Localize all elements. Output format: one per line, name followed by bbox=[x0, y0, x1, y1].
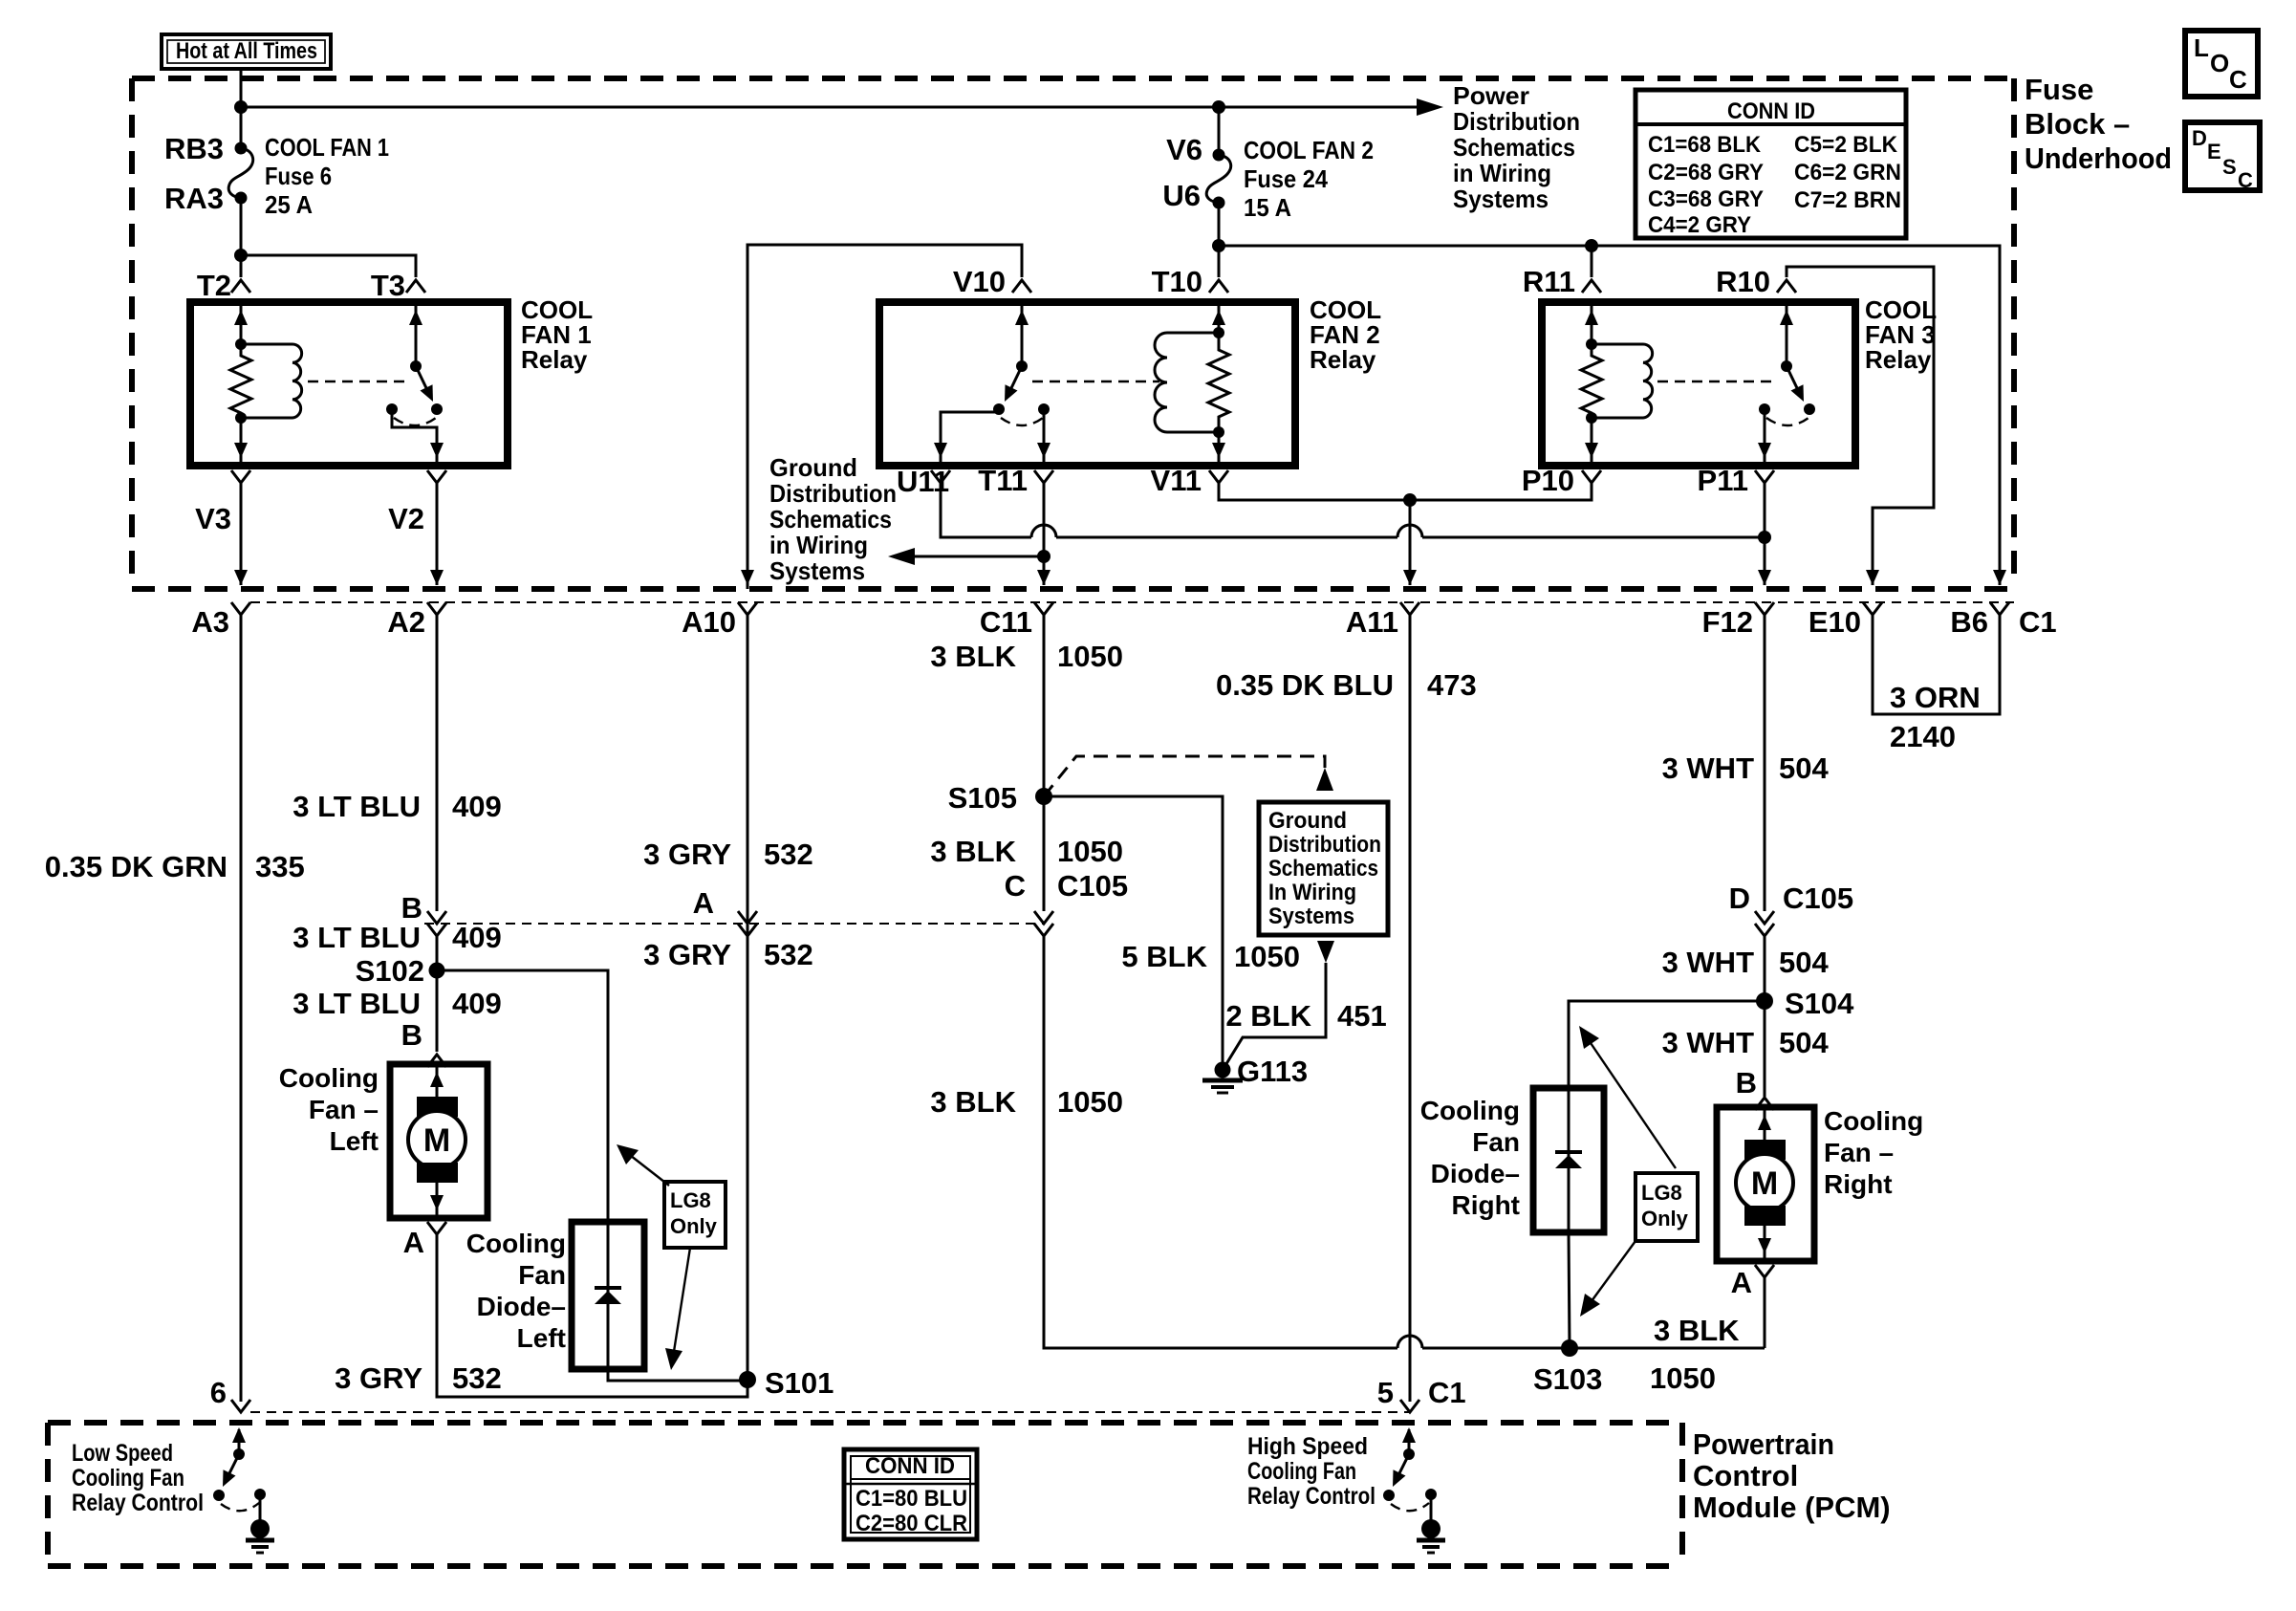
arrow C11 at block edge bbox=[1037, 570, 1051, 585]
svg-text:A: A bbox=[693, 886, 714, 920]
relay K3 COOL FAN 3 Relay box bbox=[1542, 302, 1855, 466]
relay K1 coil entry arrow bbox=[234, 310, 248, 325]
PCM dashed border right bbox=[1679, 1423, 1685, 1566]
relay K2 coil entry arrow bbox=[1212, 310, 1225, 325]
relay K1 switch entry arrow bbox=[409, 310, 422, 325]
motor M1 return wire bbox=[436, 1183, 439, 1218]
node: low speed ground contact bbox=[254, 1489, 266, 1500]
relay K1 switch lever bbox=[416, 366, 427, 390]
relay K2 switch lever bbox=[1010, 366, 1022, 390]
svg-text:V3: V3 bbox=[195, 502, 231, 535]
node: ground distribution tap bbox=[1037, 550, 1051, 563]
motor M2 exit arrow bbox=[1758, 1238, 1771, 1253]
svg-text:5: 5 bbox=[1377, 1376, 1394, 1409]
svg-text:T10: T10 bbox=[1152, 265, 1202, 298]
svg-text:1050: 1050 bbox=[1057, 1085, 1123, 1119]
fuse F24 symbol bbox=[1213, 149, 1225, 162]
svg-text:In Wiring: In Wiring bbox=[1268, 880, 1356, 905]
svg-text:Left: Left bbox=[517, 1323, 566, 1353]
svg-text:Distribution: Distribution bbox=[769, 479, 897, 508]
svg-text:V10: V10 bbox=[953, 265, 1006, 298]
svg-text:Schematics: Schematics bbox=[1268, 856, 1378, 882]
svg-text:A: A bbox=[1731, 1266, 1752, 1299]
wire: bus to B6 drop bbox=[1219, 246, 2000, 585]
svg-text:Low Speed: Low Speed bbox=[72, 1440, 173, 1467]
node: fuse2 top junction bbox=[1212, 100, 1225, 114]
diode CR1 Cooling Fan Diode Left box bbox=[572, 1222, 644, 1369]
wire: stub to R11 bbox=[1591, 246, 1593, 277]
wire 3 LT BLU 409: A2 to C105 B bbox=[436, 615, 439, 911]
node: relay K3 coil top bbox=[1586, 338, 1597, 350]
svg-text:M: M bbox=[1751, 1165, 1778, 1202]
svg-text:D: D bbox=[2192, 126, 2207, 150]
svg-text:532: 532 bbox=[452, 1361, 502, 1395]
wire: stub to T2 bbox=[240, 255, 243, 277]
wire hop over A11 bbox=[1397, 525, 1422, 537]
svg-text:3 LT BLU: 3 LT BLU bbox=[292, 790, 421, 823]
node: splice S101 bbox=[739, 1371, 756, 1388]
node: relay K2 switch pivot bbox=[1016, 360, 1028, 372]
svg-text:Systems: Systems bbox=[1453, 185, 1549, 213]
motor M1 top brush bbox=[417, 1097, 458, 1117]
svg-text:COOL FAN 2: COOL FAN 2 bbox=[1244, 136, 1374, 164]
relay K2 COOL FAN 2 Relay box bbox=[879, 302, 1295, 466]
svg-text:Ground: Ground bbox=[1268, 808, 1347, 834]
wire 3 WHT 504: S104 to fan right B bbox=[1764, 1001, 1766, 1097]
relay K2 switch throw arc bbox=[1001, 418, 1043, 425]
terminal chevron F12 bbox=[1755, 602, 1774, 615]
svg-text:P10: P10 bbox=[1522, 464, 1574, 497]
motor M1 entry arrow bbox=[430, 1072, 444, 1087]
svg-text:Only: Only bbox=[1641, 1207, 1689, 1230]
relay K1 switch input wire bbox=[415, 302, 418, 366]
svg-text:in Wiring: in Wiring bbox=[769, 531, 868, 559]
wire hop over A11 (lower) bbox=[1397, 1336, 1422, 1348]
svg-text:F12: F12 bbox=[1702, 605, 1753, 639]
node: A11 drop junction bbox=[1403, 493, 1417, 507]
svg-text:Relay: Relay bbox=[1310, 345, 1376, 374]
svg-text:T2: T2 bbox=[197, 269, 231, 302]
relay K2 coil input wire bbox=[1218, 302, 1221, 333]
PCM pin 5 internal wire bbox=[1408, 1429, 1411, 1454]
svg-text:V6: V6 bbox=[1166, 133, 1202, 166]
terminal chevron fan left B bbox=[427, 1055, 446, 1067]
svg-text:Hot at All Times: Hot at All Times bbox=[176, 38, 317, 64]
node: relay K2 contact right bbox=[1038, 403, 1050, 415]
svg-text:2 BLK: 2 BLK bbox=[1225, 999, 1311, 1033]
node: P11/F12 tie bbox=[1758, 531, 1771, 544]
svg-text:C11: C11 bbox=[980, 605, 1032, 639]
node: T10 junction bbox=[1212, 239, 1225, 252]
wire 3 WHT 504: F12 to C105 D bbox=[1764, 615, 1766, 911]
wire: A10 riser to V10 bbox=[747, 245, 1022, 589]
relay K2 coil inductor bbox=[1155, 333, 1219, 432]
wire: hot feed into fuse block bbox=[240, 69, 243, 148]
wire: V3 down to fuse block edge bbox=[240, 483, 243, 585]
node: relay K2 contact left bbox=[993, 403, 1005, 415]
wire 3 WHT 504: C105 D to S104 bbox=[1764, 936, 1766, 1001]
svg-text:C105: C105 bbox=[1783, 882, 1853, 915]
svg-text:A3: A3 bbox=[191, 605, 229, 639]
terminal chevron E10 bbox=[1863, 602, 1882, 615]
svg-text:RA3: RA3 bbox=[164, 182, 224, 215]
terminal chevron P10 bbox=[1582, 470, 1601, 483]
connector C105 row (thin dashed) bbox=[424, 923, 1044, 925]
terminal chevron T11 bbox=[1034, 470, 1053, 483]
svg-text:C1: C1 bbox=[1428, 1376, 1466, 1409]
svg-text:Relay: Relay bbox=[1865, 345, 1932, 374]
low speed ground wire bbox=[259, 1494, 262, 1520]
wire 3 BLK 1050: C11 to S105 bbox=[1043, 615, 1046, 796]
svg-text:T11: T11 bbox=[978, 464, 1028, 497]
arrowhead to ground distribution bbox=[888, 548, 915, 565]
svg-text:3 GRY: 3 GRY bbox=[643, 838, 731, 871]
node: relay K3 coil bottom bbox=[1586, 412, 1597, 424]
svg-text:U6: U6 bbox=[1162, 179, 1201, 212]
svg-text:Power: Power bbox=[1453, 81, 1529, 110]
node: relay K1 coil bottom bbox=[235, 412, 247, 424]
svg-text:Distribution: Distribution bbox=[1268, 832, 1381, 858]
svg-text:504: 504 bbox=[1779, 751, 1829, 785]
svg-text:409: 409 bbox=[452, 987, 502, 1020]
svg-text:L: L bbox=[2194, 33, 2209, 62]
svg-text:COOL FAN 1: COOL FAN 1 bbox=[265, 133, 389, 162]
terminal chevron R10 bbox=[1777, 280, 1796, 293]
terminal chevron fan right A bbox=[1755, 1265, 1774, 1277]
motor M1 armature circle bbox=[408, 1111, 466, 1168]
terminal chevron B6 bbox=[1990, 602, 2009, 615]
wire: P11 down to block edge bbox=[1764, 483, 1766, 585]
relay K3 coupling dashed link bbox=[1657, 381, 1776, 382]
relay K3 coil exit arrow bbox=[1585, 443, 1598, 458]
svg-text:Fuse: Fuse bbox=[2025, 73, 2093, 106]
svg-text:3 ORN: 3 ORN bbox=[1890, 681, 1981, 714]
wire hop over T11 bbox=[1031, 525, 1056, 537]
diode CR2 Cooling Fan Diode Right box bbox=[1533, 1088, 1604, 1232]
diode CR1 through wire bbox=[607, 1222, 610, 1369]
svg-text:Module (PCM): Module (PCM) bbox=[1693, 1491, 1891, 1524]
high speed driver throw arc bbox=[1391, 1503, 1429, 1511]
svg-text:Cooling: Cooling bbox=[1824, 1106, 1923, 1136]
arrow F12 at block edge bbox=[1758, 570, 1771, 585]
LG8 Only callout box (right) bbox=[1635, 1173, 1698, 1241]
node: splice S102 bbox=[429, 963, 445, 979]
relay K3 switch lever bbox=[1787, 366, 1798, 390]
node: relay K1 coil top bbox=[235, 338, 247, 350]
svg-text:Fan –: Fan – bbox=[309, 1095, 379, 1124]
relay K1 coil input wire bbox=[240, 302, 243, 344]
fuse F6 COOL FAN 1 symbol bbox=[235, 142, 248, 155]
svg-text:3 WHT: 3 WHT bbox=[1662, 751, 1755, 785]
svg-text:V11: V11 bbox=[1151, 464, 1202, 497]
svg-text:3 LT BLU: 3 LT BLU bbox=[292, 921, 421, 954]
motor M2 armature circle bbox=[1736, 1154, 1793, 1211]
svg-text:CONN ID: CONN ID bbox=[865, 1453, 955, 1479]
relay K1 coupling dashed link bbox=[308, 381, 405, 382]
node: relay K1 switch pivot bbox=[410, 360, 422, 372]
LG8 leader arrow upper (left) bbox=[626, 1152, 669, 1186]
terminal chevron T3 bbox=[406, 280, 425, 293]
node: relay K1 contact left bbox=[386, 403, 398, 415]
svg-text:Relay Control: Relay Control bbox=[1247, 1483, 1375, 1510]
node: power junction bbox=[234, 100, 248, 114]
motor M2 top brush bbox=[1744, 1140, 1786, 1160]
relay K3 switch input wire bbox=[1786, 302, 1788, 366]
wire: fan right A to S103 bbox=[1764, 1277, 1766, 1348]
svg-text:Right: Right bbox=[1451, 1190, 1520, 1220]
wire 3 GRY 532: fan left A to S101 bbox=[437, 1234, 747, 1397]
terminal chevron T2 bbox=[231, 280, 250, 293]
reference arrow down bbox=[1317, 941, 1334, 963]
svg-text:Fan –: Fan – bbox=[1824, 1138, 1894, 1167]
terminal chevron A3 bbox=[231, 602, 250, 615]
svg-text:S103: S103 bbox=[1533, 1362, 1602, 1396]
svg-text:Fuse 6: Fuse 6 bbox=[265, 162, 332, 190]
svg-text:C1: C1 bbox=[2019, 605, 2057, 639]
svg-text:T3: T3 bbox=[371, 269, 405, 302]
svg-text:335: 335 bbox=[255, 850, 305, 883]
wire: fuse2 to T10 junction bbox=[1218, 203, 1221, 246]
terminal chevron C11 bbox=[1034, 602, 1053, 615]
PCM pin 5 arrow up bbox=[1402, 1427, 1416, 1443]
LG8 leader arrow lower (right) bbox=[1589, 1241, 1635, 1305]
svg-text:C6=2 GRN: C6=2 GRN bbox=[1794, 160, 1901, 185]
Ground Distribution reference box bbox=[1259, 802, 1388, 935]
svg-text:3 BLK: 3 BLK bbox=[930, 640, 1016, 673]
high speed ground wire bbox=[1430, 1494, 1433, 1520]
wire: V11 to P10 coil tie bbox=[1219, 483, 1592, 500]
terminal chevron A2 bbox=[427, 602, 446, 615]
node: high speed driver pivot bbox=[1403, 1448, 1415, 1460]
wire: diode left bottom to S101 bbox=[608, 1369, 747, 1381]
svg-text:Powertrain: Powertrain bbox=[1693, 1427, 1834, 1461]
svg-text:D: D bbox=[1729, 882, 1750, 915]
wire 3 LT BLU 409: C105 B to S102 bbox=[436, 936, 439, 970]
PCM connector row (thin dashed) bbox=[250, 1411, 1410, 1413]
connector C105 double chevron C bbox=[1034, 911, 1053, 924]
svg-text:Cooling: Cooling bbox=[279, 1063, 379, 1093]
svg-text:3 LT BLU: 3 LT BLU bbox=[292, 987, 421, 1020]
svg-text:P11: P11 bbox=[1698, 464, 1748, 497]
svg-text:C5=2 BLK: C5=2 BLK bbox=[1794, 132, 1898, 158]
motor M2 entry arrow bbox=[1758, 1115, 1771, 1130]
svg-text:Block –: Block – bbox=[2025, 107, 2130, 141]
PCM dashed border bottom bbox=[48, 1563, 1682, 1569]
svg-text:High Speed: High Speed bbox=[1247, 1433, 1368, 1460]
svg-text:C2=68 GRY: C2=68 GRY bbox=[1648, 160, 1764, 185]
wire: S103 to fan right A riser bbox=[1570, 1347, 1765, 1350]
PCM pin 6 internal wire bbox=[238, 1429, 241, 1454]
svg-text:Systems: Systems bbox=[1268, 903, 1354, 929]
svg-text:1050: 1050 bbox=[1057, 835, 1123, 868]
wire 0.35 DK GRN 335: A3 to PCM pin 6 bbox=[240, 615, 243, 1402]
node: relay K1 contact right bbox=[431, 403, 443, 415]
relay K2 switch input wire bbox=[1021, 302, 1024, 366]
svg-text:A10: A10 bbox=[682, 605, 736, 639]
relay K3 switch throw arc bbox=[1766, 418, 1809, 425]
svg-text:V2: V2 bbox=[388, 502, 424, 535]
relay K3 coil inductor bbox=[1592, 344, 1653, 418]
svg-text:473: 473 bbox=[1427, 668, 1477, 702]
svg-text:3 WHT: 3 WHT bbox=[1662, 1026, 1755, 1059]
diode CR2 through wire bbox=[1569, 1088, 1570, 1348]
svg-text:504: 504 bbox=[1779, 1026, 1829, 1059]
svg-text:C4=2 GRY: C4=2 GRY bbox=[1648, 212, 1751, 238]
svg-text:C3=68 GRY: C3=68 GRY bbox=[1648, 186, 1764, 212]
relay K3 coil entry arrow bbox=[1585, 310, 1598, 325]
svg-text:O: O bbox=[2210, 49, 2229, 77]
terminal chevron A10 bbox=[738, 602, 757, 615]
relay K1 coil resistor bbox=[230, 344, 251, 418]
LG8 Only callout box (left) bbox=[664, 1182, 726, 1248]
fuse F24 COOL FAN 2: feed wire bbox=[1218, 107, 1221, 155]
node: splice S103 bbox=[1561, 1339, 1578, 1357]
LG8 leader arrow upper (right) bbox=[1587, 1037, 1676, 1168]
svg-text:Fan: Fan bbox=[518, 1260, 566, 1290]
svg-text:Fuse 24: Fuse 24 bbox=[1244, 164, 1328, 193]
svg-text:Cooling Fan: Cooling Fan bbox=[1247, 1458, 1356, 1485]
svg-text:A: A bbox=[403, 1226, 424, 1259]
svg-text:R10: R10 bbox=[1716, 265, 1770, 298]
PCM pin 6 arrow up bbox=[232, 1427, 246, 1443]
connector C105 double chevron A bbox=[738, 911, 757, 924]
svg-text:1050: 1050 bbox=[1650, 1361, 1716, 1395]
svg-text:Diode–: Diode– bbox=[1431, 1159, 1520, 1188]
terminal chevron V3 bbox=[231, 470, 250, 483]
svg-text:A11: A11 bbox=[1346, 605, 1398, 639]
arrow A11 at block edge bbox=[1403, 570, 1417, 585]
reference arrow up bbox=[1316, 768, 1333, 791]
ground G113 bbox=[1215, 1062, 1231, 1078]
ground (low speed driver) bbox=[250, 1519, 270, 1538]
terminal chevron fan right B bbox=[1755, 1098, 1774, 1110]
CONN ID table (fuse block) bbox=[1635, 90, 1906, 238]
wire 3 BLK 1050: S105 to C105 C bbox=[1043, 796, 1046, 911]
relay K1 coil inductor bbox=[241, 344, 302, 418]
svg-text:A2: A2 bbox=[387, 605, 425, 639]
svg-text:2140: 2140 bbox=[1890, 720, 1956, 753]
svg-text:3 GRY: 3 GRY bbox=[643, 938, 731, 971]
wire 3 GRY 532: A10 wire down bbox=[747, 615, 749, 1380]
wire: power distribution feed bbox=[241, 106, 1434, 109]
CONN ID table (PCM) bbox=[844, 1449, 977, 1539]
svg-text:LG8: LG8 bbox=[670, 1188, 711, 1212]
wire: V2 down to fuse block edge bbox=[436, 483, 439, 585]
svg-text:3 BLK: 3 BLK bbox=[930, 1085, 1016, 1119]
svg-text:Systems: Systems bbox=[769, 556, 865, 585]
label Hot at All Times box bbox=[162, 34, 331, 69]
wire: stub to T10 bbox=[1218, 246, 1221, 277]
svg-text:3 GRY: 3 GRY bbox=[335, 1361, 422, 1395]
svg-text:Control: Control bbox=[1693, 1459, 1798, 1492]
dashed wire: S105 to ground distribution reference bbox=[1044, 756, 1325, 796]
LOC reference box bbox=[2185, 31, 2258, 97]
terminal chevron A11 bbox=[1400, 602, 1419, 615]
svg-text:B: B bbox=[1736, 1066, 1757, 1099]
relay K2 switch entry arrow bbox=[1015, 310, 1029, 325]
svg-text:B: B bbox=[401, 1018, 422, 1052]
wire: fuse1 to T2/T3 junction bbox=[240, 198, 243, 255]
motor M1 feed wire bbox=[436, 1064, 439, 1099]
fuse block connector C1 row (thin dashed) bbox=[250, 601, 2014, 603]
wire 3 BLK 1050: C105 C down to S103 run bbox=[1044, 936, 1570, 1348]
svg-text:1050: 1050 bbox=[1057, 640, 1123, 673]
arrow V3 at block edge bbox=[234, 570, 248, 585]
node: relay K3 switch pivot bbox=[1781, 360, 1792, 372]
svg-text:M: M bbox=[423, 1122, 450, 1159]
relay K3 switch entry arrow bbox=[1780, 310, 1793, 325]
node: low speed driver pivot bbox=[233, 1448, 245, 1460]
svg-text:C: C bbox=[2229, 65, 2247, 94]
terminal chevron R11 bbox=[1582, 280, 1601, 293]
svg-text:C: C bbox=[2238, 168, 2253, 192]
wire 3 LT BLU 409: S102 to fan B bbox=[436, 970, 439, 1052]
svg-text:S104: S104 bbox=[1785, 987, 1854, 1020]
relay K1 switch exit arrow bbox=[430, 443, 444, 458]
svg-text:6: 6 bbox=[210, 1376, 227, 1409]
relay K1 switch output wire bbox=[392, 409, 437, 466]
svg-text:S101: S101 bbox=[765, 1366, 834, 1400]
relay K2 coil output wire bbox=[1218, 432, 1221, 466]
motor M2 bottom brush bbox=[1744, 1206, 1786, 1226]
node: relay K2 coil bottom bbox=[1213, 426, 1224, 438]
relay K3 switch exit arrow bbox=[1758, 443, 1771, 458]
svg-text:504: 504 bbox=[1779, 946, 1829, 979]
svg-text:409: 409 bbox=[452, 790, 502, 823]
motor M2 Cooling Fan Right box bbox=[1717, 1107, 1814, 1261]
terminal chevron PCM pin 6 bbox=[231, 1400, 250, 1412]
relay K3 coil output wire bbox=[1591, 418, 1593, 466]
svg-text:Cooling Fan: Cooling Fan bbox=[72, 1465, 184, 1491]
node: T2/T3 junction bbox=[234, 249, 248, 262]
ground (high speed driver) bbox=[1421, 1519, 1440, 1538]
svg-text:0.35 DK BLU: 0.35 DK BLU bbox=[1216, 668, 1394, 702]
svg-text:Only: Only bbox=[670, 1214, 718, 1238]
arrow V2 at block edge bbox=[430, 570, 444, 585]
node: splice S105 bbox=[1035, 788, 1052, 805]
DESC reference box bbox=[2185, 122, 2260, 190]
svg-text:5 BLK: 5 BLK bbox=[1121, 940, 1207, 973]
arrowhead to power distribution bbox=[1417, 98, 1443, 116]
svg-text:E: E bbox=[2207, 140, 2221, 163]
terminal chevron V2 bbox=[427, 470, 446, 483]
wire 5 BLK 1050: S105 branch to G113 bbox=[1044, 796, 1223, 1070]
svg-text:C105: C105 bbox=[1057, 869, 1128, 903]
svg-text:CONN ID: CONN ID bbox=[1727, 98, 1815, 124]
low speed driver throw arc bbox=[221, 1503, 259, 1511]
svg-text:B6: B6 bbox=[1950, 605, 1988, 639]
svg-text:451: 451 bbox=[1337, 999, 1387, 1033]
wire: R10 loop from E10 bbox=[1787, 267, 1934, 585]
wire: T11 down to ground arrow junction bbox=[1043, 483, 1046, 585]
terminal chevron fan left A bbox=[427, 1222, 446, 1234]
svg-text:C: C bbox=[1005, 869, 1026, 903]
svg-text:Underhood: Underhood bbox=[2025, 142, 2172, 175]
svg-text:Cooling: Cooling bbox=[466, 1229, 566, 1258]
relay K1 coil exit arrow bbox=[234, 443, 248, 458]
svg-text:Relay Control: Relay Control bbox=[72, 1490, 204, 1516]
diode CR2 symbol bbox=[1555, 1150, 1582, 1154]
svg-text:C1=80 BLU: C1=80 BLU bbox=[856, 1486, 967, 1512]
svg-text:Diode–: Diode– bbox=[477, 1292, 566, 1321]
svg-text:Relay: Relay bbox=[521, 345, 588, 374]
svg-text:Left: Left bbox=[330, 1126, 379, 1156]
PCM dashed border top bbox=[48, 1420, 1682, 1426]
svg-text:3 WHT: 3 WHT bbox=[1662, 946, 1755, 979]
svg-text:1050: 1050 bbox=[1234, 940, 1300, 973]
svg-text:Schematics: Schematics bbox=[1453, 133, 1575, 162]
PCM dashed border left bbox=[45, 1423, 51, 1566]
